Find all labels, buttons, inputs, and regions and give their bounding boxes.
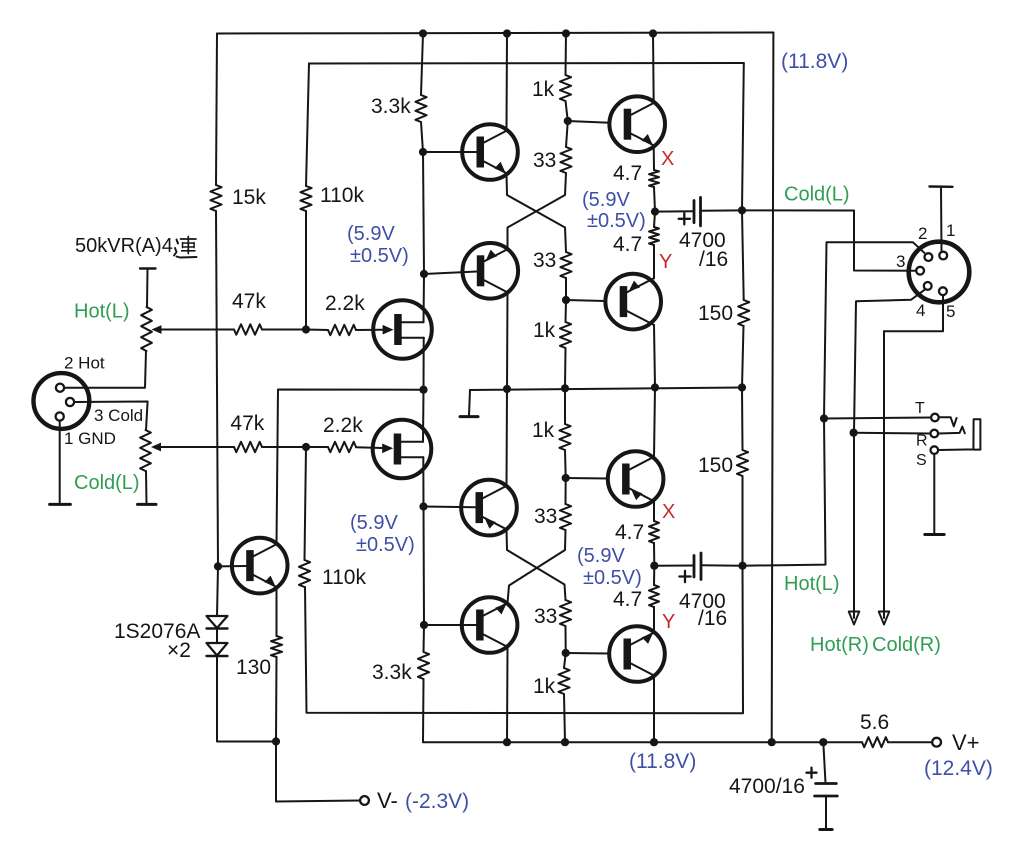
jack tip spring — [939, 417, 957, 426]
wire JFET1 source — [423, 338, 425, 390]
svg-text:4.7: 4.7 — [613, 162, 642, 185]
resistor 2.2k lower — [323, 414, 363, 452]
svg-text:4.7: 4.7 — [613, 588, 642, 611]
wire 1k to ground wire — [564, 348, 567, 388]
label 5.9V upper-left — [347, 223, 409, 267]
wire node B to 110k lower — [305, 447, 307, 560]
ground symbol middle — [460, 390, 478, 417]
wire Cold(L) to DIN pin3 — [742, 210, 916, 270]
junction node A input Hot(L) — [302, 325, 310, 333]
wire Q5 emitter to 130 — [276, 587, 278, 636]
svg-text:±0.5V): ±0.5V) — [583, 567, 642, 589]
svg-text:Hot(L): Hot(L) — [74, 301, 130, 323]
svg-text:(11.8V): (11.8V) — [629, 750, 696, 773]
junction ground x742 — [738, 383, 746, 391]
transistor Q2 driver (PNP) — [463, 243, 519, 299]
resistor 4.7 lower-top — [615, 521, 659, 544]
wire left bias rail (top wire to 15k) — [216, 34, 217, 186]
resistor 4.7 upper-bottom — [613, 227, 659, 256]
svg-text:1k: 1k — [532, 419, 555, 442]
transistor Q2b driver (NPN) — [462, 597, 518, 653]
junction Hot(L) output — [738, 562, 746, 570]
junction bottom x507 — [503, 738, 511, 746]
label 2 Hot — [64, 354, 105, 373]
resistor 1k lower-top — [532, 419, 571, 450]
wire between diodes — [216, 628, 218, 643]
svg-text:33: 33 — [534, 605, 557, 628]
junction ground x655 — [651, 383, 659, 391]
wire JFET2 drain down — [422, 457, 424, 506]
wire 33 cross to Q2b emitter — [508, 530, 566, 603]
resistor 150 lower — [698, 450, 748, 477]
svg-text:3.3k: 3.3k — [372, 661, 412, 684]
label 1 GND — [64, 429, 116, 448]
svg-text:R: R — [916, 433, 928, 450]
wire feedback corner down to output — [742, 63, 744, 210]
wire Q1 emitter cross to 33 — [507, 173, 566, 227]
svg-text:4.7: 4.7 — [613, 233, 642, 256]
wire 33 to QY base node — [565, 278, 567, 300]
terminal V+ — [932, 730, 979, 755]
svg-text:3 Cold: 3 Cold — [94, 406, 143, 425]
label 50kVR(A)4-gang — [75, 235, 197, 258]
wire Hot(R) feed — [853, 433, 855, 618]
resistor 3.3k upper — [371, 95, 427, 122]
wire 4.7 to QY emitter — [653, 245, 655, 278]
wire 4.7 to output node — [654, 187, 655, 212]
wire Q1 base — [423, 151, 477, 153]
capacitor 4700/16 upper — [679, 197, 729, 271]
junction Q2b base node — [420, 621, 428, 629]
wire cap to 150 node — [701, 209, 743, 211]
DIN pin 1 — [939, 252, 947, 260]
transistor Q1 driver (NPN) — [462, 124, 518, 180]
svg-text:47k: 47k — [230, 412, 264, 435]
wire 110k to node A — [305, 211, 307, 330]
svg-text:130: 130 — [236, 656, 271, 679]
junction output node Hot(L) — [650, 562, 658, 570]
wire 33 to QYb base node — [565, 626, 567, 653]
label 12.4V — [924, 757, 993, 780]
svg-text:(-2.3V): (-2.3V) — [405, 790, 469, 813]
svg-text:X: X — [661, 148, 674, 170]
diode D1 1S2076A — [207, 616, 228, 629]
wire ground to Q1b collector — [506, 389, 509, 486]
wire 150 to ground wire — [742, 326, 744, 388]
wire 1k to bottom rail — [564, 694, 565, 742]
capacitor 4700/16 supply — [729, 742, 837, 829]
transistor Q5 current source — [232, 538, 288, 594]
wire Q2b base — [424, 624, 476, 626]
junction Q5 base — [214, 562, 222, 570]
wire output node B to 4.7 — [653, 566, 655, 585]
wire DIN pin1 shield — [930, 187, 953, 252]
label Hot(R) — [810, 634, 869, 656]
wire 1k to QX base node — [566, 101, 568, 121]
svg-text:/16: /16 — [699, 248, 728, 271]
svg-text:110k: 110k — [322, 566, 366, 589]
terminal V- — [360, 788, 398, 813]
DIN pin 4 — [924, 282, 932, 290]
resistor 1k upper-bottom — [533, 319, 571, 348]
label X lower — [662, 501, 675, 523]
svg-text:1k: 1k — [533, 319, 556, 342]
svg-text:(12.4V): (12.4V) — [924, 757, 993, 780]
jack ring spring — [938, 427, 965, 434]
junction top wire x565 — [562, 29, 570, 37]
svg-text:1k: 1k — [533, 675, 556, 698]
svg-text:33: 33 — [533, 249, 556, 272]
wire 4.7 to QYb emitter — [653, 607, 655, 633]
svg-text:V-: V- — [377, 788, 398, 813]
junction Q1 base node — [419, 148, 427, 156]
wire VR2 wiper to 47k — [157, 446, 234, 448]
resistor 47k lower — [230, 412, 264, 452]
label Cold(L) — [74, 472, 140, 494]
label Cold(L) output — [784, 184, 850, 206]
jack plug body — [938, 419, 980, 450]
VR2 wiper arrow — [151, 443, 161, 452]
resistor 47k upper — [232, 290, 266, 335]
wire DIN pin4 to Hot(R) — [854, 290, 925, 433]
resistor 5.6 — [860, 711, 889, 747]
junction Hot(L) at jack T — [820, 414, 828, 422]
wire output to 150 — [742, 210, 744, 300]
junction QY base node — [562, 296, 570, 304]
svg-text:±0.5V): ±0.5V) — [356, 534, 415, 556]
wire Q1b emitter cross to 33 — [507, 529, 565, 584]
wire Q5 base — [218, 565, 246, 567]
resistor 15k — [210, 185, 266, 211]
wire R to jack — [854, 432, 931, 435]
svg-text:150: 150 — [698, 454, 733, 477]
wire bias rail 15k to diodes — [216, 211, 218, 616]
wire 2.2k to JFET1 gate — [356, 325, 394, 335]
wire signal ground — [470, 388, 742, 391]
label Y upper — [659, 251, 672, 273]
wire ground to QXb collector — [654, 388, 655, 457]
svg-text:×2: ×2 — [167, 639, 191, 662]
label 5.9V upper-right — [582, 189, 646, 232]
wire 5.6 to V+ — [888, 741, 932, 743]
label 3 Cold — [94, 406, 143, 425]
svg-text:T: T — [915, 400, 925, 417]
svg-text:15k: 15k — [232, 186, 266, 209]
junction node B input Cold(L) — [302, 443, 310, 451]
arrow Cold(R) — [879, 612, 890, 625]
svg-text:(5.9V: (5.9V — [350, 512, 398, 534]
DIN pin 3 — [916, 267, 924, 275]
jack sleeve contact S — [916, 446, 938, 469]
wire feedback top — [309, 62, 744, 65]
junction Hot(R) at jack R — [850, 429, 858, 437]
label 5.9V lower-left — [350, 512, 415, 556]
svg-text:Hot(L): Hot(L) — [784, 573, 840, 595]
wire 47k to node A — [262, 329, 306, 331]
potentiometer VR1 Hot(L) top bar — [140, 269, 156, 308]
junction bottom cap node — [819, 738, 827, 746]
svg-text:X: X — [662, 501, 675, 523]
transistor QX output (NPN) — [609, 96, 665, 152]
junction bottom x772 — [768, 738, 776, 746]
ground bar XLR pin1 — [50, 503, 71, 506]
wire QXb emitter to 4.7 — [653, 501, 655, 521]
svg-text:(5.9V: (5.9V — [347, 223, 395, 245]
wire QXb node to 33 — [565, 478, 567, 504]
wire JFET2 source up — [422, 390, 425, 442]
wire QXb base — [566, 477, 609, 480]
junction Cold(L) output — [738, 206, 746, 214]
svg-text:(11.8V): (11.8V) — [781, 50, 848, 73]
wire 130 to V- node — [275, 657, 278, 742]
junction ground x507 — [503, 385, 511, 393]
resistor 4.7 lower-bottom — [613, 585, 659, 611]
svg-text:47k: 47k — [232, 290, 266, 313]
transistor QXb output (PNP) — [608, 451, 664, 507]
svg-text:3.3k: 3.3k — [371, 95, 411, 118]
wire QY base node to 1k — [565, 300, 568, 322]
DIN pin 5 — [939, 287, 947, 295]
svg-text:±0.5V): ±0.5V) — [350, 245, 409, 267]
wire QX emitter to 4.7 — [653, 145, 655, 170]
wire T to jack — [824, 418, 931, 419]
svg-text:2 Hot: 2 Hot — [64, 354, 105, 373]
wire node B to 2.2k — [306, 446, 328, 448]
label DIN 4 — [916, 301, 925, 320]
wire top to QX collector — [652, 34, 655, 104]
svg-text:5.6: 5.6 — [860, 711, 889, 734]
wire cap to 150 node B — [701, 564, 743, 566]
wire JFET1 drain — [423, 274, 426, 322]
svg-text:1k: 1k — [532, 78, 555, 101]
wire QYb collector to bottom rail — [653, 676, 655, 743]
transistor Q1b driver (PNP) — [461, 480, 517, 536]
XLR pin 3 — [66, 398, 74, 406]
resistor 33 lower-bottom — [534, 600, 571, 628]
label Y lower — [662, 611, 675, 633]
wire 4.7 to output node B — [653, 543, 655, 566]
svg-text:2.2k: 2.2k — [325, 292, 365, 315]
wire to V- terminal — [276, 742, 360, 802]
resistor 2.2k upper — [325, 292, 365, 335]
XLR pin 2 — [56, 384, 64, 392]
wire Q2 collector down to ground — [506, 292, 509, 389]
diode D2 1S2076A — [207, 643, 228, 656]
svg-text:2: 2 — [918, 224, 927, 243]
label DIN 3 — [896, 252, 905, 271]
wire Hot(L) to DIN pin2 — [743, 242, 925, 565]
svg-text:S: S — [916, 452, 927, 469]
wire VR2 bottom to ground — [145, 471, 148, 504]
wire QX base node to 33 — [566, 121, 568, 147]
wire feedback bottom — [305, 566, 743, 713]
ground bar VR2 — [138, 503, 157, 506]
junction Q2 base node / JFET1 drain — [420, 270, 428, 278]
wire Q1b base — [424, 506, 476, 509]
svg-text:110k: 110k — [320, 184, 364, 207]
transistor QY output (PNP) — [605, 274, 661, 330]
resistor 110k upper — [300, 184, 364, 211]
wire VR1 bottom to XLR pin2 — [64, 351, 146, 388]
junction top wire x653 — [649, 29, 657, 37]
wire QY base — [566, 300, 605, 301]
VR1 wiper arrow — [152, 325, 162, 334]
resistor 130 — [236, 636, 282, 679]
junction QXb base node — [562, 474, 570, 482]
wire 47k to node B — [262, 446, 306, 448]
wire feedback left drop — [306, 64, 309, 187]
wire node A to 2.2k — [306, 329, 328, 332]
svg-text:5: 5 — [946, 302, 955, 321]
arrow Hot(R) — [849, 612, 860, 625]
wire diode bottom to V- node — [217, 656, 276, 742]
svg-text:Cold(L): Cold(L) — [784, 184, 850, 206]
resistor 33 upper-top — [533, 147, 572, 173]
junction QX base node — [564, 117, 572, 125]
wire ground to 150 lower — [741, 388, 744, 451]
wire V+ right rail — [772, 33, 774, 743]
wire QYb base — [566, 652, 609, 655]
ground bar jack sleeve — [925, 533, 944, 536]
junction bottom x654 — [650, 738, 658, 746]
wire QY collector to ground — [654, 325, 655, 388]
label Hot(L) — [74, 301, 130, 323]
junction QYb base node — [562, 649, 570, 657]
wire Q2b collector to bottom rail — [506, 647, 509, 742]
XLR pin 1 — [56, 412, 64, 420]
wire QX base — [568, 121, 610, 123]
svg-text:Y: Y — [662, 611, 675, 633]
label Hot(L) output — [784, 573, 840, 595]
capacitor 4700/16 lower — [679, 553, 727, 630]
wire V+ 11.8V top rail — [217, 33, 773, 34]
junction ground x565 — [561, 384, 569, 392]
wire QYb node to 1k — [564, 653, 566, 668]
connector XLR shell — [34, 373, 90, 429]
potentiometer VR1 Hot(L) — [141, 307, 152, 351]
svg-text:33: 33 — [533, 149, 556, 172]
svg-text:4700/16: 4700/16 — [729, 775, 805, 798]
DIN pin 2 — [925, 253, 933, 261]
resistor 110k lower — [299, 560, 367, 589]
transistor JFET1 input Hot(L) — [373, 300, 432, 359]
wire to Q2 base node — [423, 152, 424, 274]
jack tip contact T — [915, 400, 939, 421]
wire 2.2k to JFET2 gate — [356, 444, 393, 454]
label Cold(R) — [872, 634, 941, 656]
wire top to Q1 collector — [506, 34, 509, 131]
svg-text:Hot(R): Hot(R) — [810, 634, 869, 656]
label 1S2076A x2 — [114, 620, 200, 662]
svg-text:Cold(L): Cold(L) — [74, 472, 140, 494]
junction JFET source node — [419, 386, 427, 394]
resistor 3.3k lower — [372, 652, 429, 684]
label DIN 5 — [946, 302, 955, 321]
wire 1k to QXb base node — [564, 450, 567, 478]
label 11.8V top — [781, 50, 848, 73]
junction output node Cold(L) — [651, 208, 659, 216]
junction Q1b base node — [419, 502, 427, 510]
resistor 33 lower-top — [534, 504, 571, 530]
resistor 4.7 upper-top — [613, 162, 659, 187]
wire S to ground — [933, 454, 935, 534]
label 11.8V bottom — [629, 750, 696, 773]
svg-text:2.2k: 2.2k — [323, 414, 363, 437]
junction top wire at 3.3k rail — [419, 29, 427, 37]
transistor JFET2 input Cold(L) — [373, 420, 432, 479]
label 5.9V lower-right — [577, 545, 642, 589]
svg-text:4.7: 4.7 — [615, 521, 644, 544]
wire output node to cap — [655, 210, 694, 212]
potentiometer VR2 Cold(L) — [140, 430, 151, 471]
svg-text:Y: Y — [659, 251, 672, 273]
label -2.3V — [405, 790, 469, 813]
wire rail to Q2b base node — [423, 507, 426, 626]
wire 150 to output B — [742, 476, 744, 566]
wire top rail to 3.3k — [421, 34, 423, 96]
svg-text:V+: V+ — [952, 730, 980, 755]
wire XLR pin1 to ground — [59, 421, 61, 504]
svg-text:3: 3 — [896, 252, 905, 271]
wire 33 cross to Q2 emitter — [508, 173, 567, 249]
wire Q5 collector to JFET sources — [277, 390, 424, 545]
svg-text:1 GND: 1 GND — [64, 429, 116, 448]
junction bottom x565 — [561, 738, 569, 746]
svg-text:±0.5V): ±0.5V) — [587, 210, 646, 232]
label DIN 2 — [918, 224, 927, 243]
svg-text:150: 150 — [698, 302, 733, 325]
wire 3.3k to bottom rail — [422, 679, 425, 742]
transistor QYb output (NPN) — [609, 626, 665, 682]
label DIN 1 — [946, 221, 955, 240]
wire cross to 33lb — [565, 585, 566, 601]
junction V- node — [272, 737, 280, 745]
resistor 1k lower-bottom — [533, 668, 570, 698]
wire 3.3k to Q1 base node — [421, 122, 423, 152]
resistor 1k upper-top — [532, 75, 571, 101]
wire XLR pin3 to VR2 — [74, 402, 148, 431]
svg-text:33: 33 — [534, 505, 557, 528]
resistor 150 upper — [698, 300, 749, 326]
wire V+ 11.8V bottom rail — [423, 741, 862, 743]
wire Cold(R) feed — [883, 331, 885, 618]
wire VR1 wiper to 47k — [157, 329, 234, 331]
wire output node B to cap — [654, 565, 694, 567]
wire Q2b node to 3.3k — [423, 625, 426, 652]
resistor 33 upper-bottom — [533, 249, 572, 278]
svg-text:Cold(R): Cold(R) — [872, 634, 941, 656]
wire output node to 4.7 — [654, 212, 655, 227]
svg-text:/16: /16 — [698, 607, 727, 630]
wire DIN pin5 to Cold(R) — [884, 295, 943, 331]
wire ground to 1k — [564, 388, 566, 424]
wire cross to 33ub — [565, 228, 566, 253]
svg-text:(5.9V: (5.9V — [582, 189, 630, 211]
svg-text:(5.9V: (5.9V — [577, 545, 625, 567]
connector DIN shell — [909, 242, 970, 303]
label X upper — [661, 148, 674, 170]
wire 1k-33 column top — [565, 34, 568, 76]
svg-text:1: 1 — [946, 221, 955, 240]
svg-text:4: 4 — [916, 301, 925, 320]
junction top wire x507 — [503, 29, 511, 37]
svg-text:50kVR(A)4: 50kVR(A)4 — [75, 235, 173, 257]
jack ring contact R — [916, 430, 938, 450]
wire Q2 base — [424, 272, 477, 275]
